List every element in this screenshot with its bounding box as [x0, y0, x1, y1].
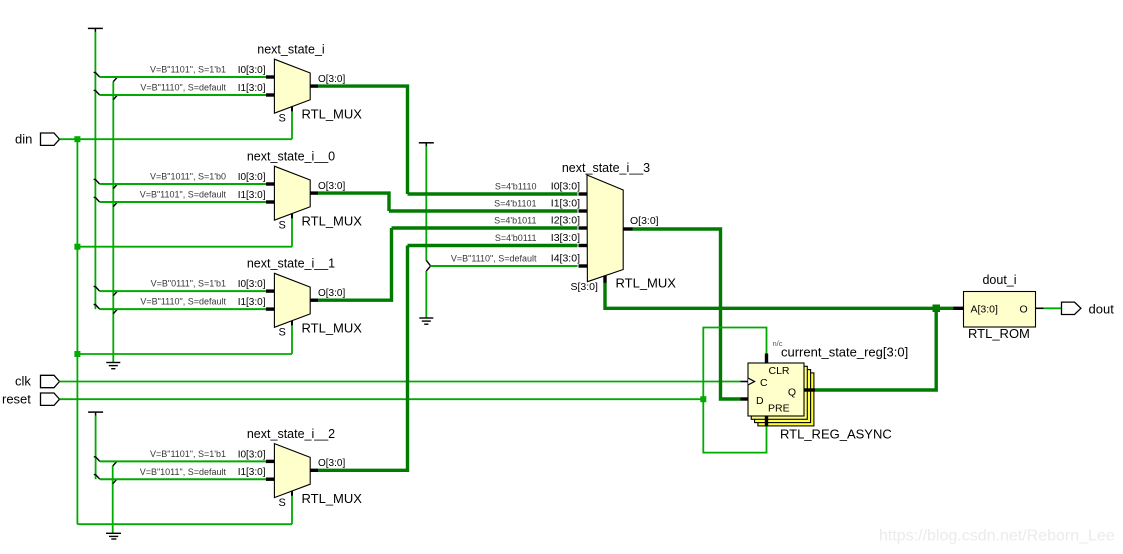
bus big mux input I2: [392, 226, 578, 229]
wire din port to mux S column: [60, 138, 293, 140]
wire reset loop to PRE (lower): [703, 399, 766, 452]
jog trunk1 to I0 of next_state_i__0: [94, 179, 100, 184]
svg-text:next_state_i__0: next_state_i__0: [247, 150, 335, 164]
svg-text:V=B"1101", S=default: V=B"1101", S=default: [140, 190, 227, 200]
power symbol bottom-left constant: [88, 411, 103, 413]
svg-text:S: S: [279, 497, 286, 509]
bus next_state_i__1 O to big mux I2: [318, 228, 392, 300]
wire middle constant trunk upper: [425, 146, 427, 260]
svg-text:O[3:0]: O[3:0]: [318, 74, 345, 85]
junction din / next_state_i__0 S branch: [74, 244, 80, 250]
svg-text:C: C: [760, 377, 768, 389]
svg-text:O[3:0]: O[3:0]: [630, 215, 659, 227]
svg-text:next_state_i__2: next_state_i__2: [247, 427, 335, 441]
jog trunk2 below I1 of next_state_i: [113, 95, 117, 100]
jog trunk1 to I0 of next_state_i: [94, 72, 100, 77]
svg-text:dout: dout: [1089, 302, 1115, 317]
svg-text:next_state_i__3: next_state_i__3: [562, 161, 650, 175]
jog trunk2 below I1 of next_state_i__0: [113, 202, 117, 207]
svg-text:I4[3:0]: I4[3:0]: [551, 253, 580, 265]
svg-text:S=4'b1110: S=4'b1110: [495, 182, 537, 192]
svg-text:RTL_MUX: RTL_MUX: [302, 107, 363, 122]
bus big mux input I0: [408, 192, 578, 195]
rom dout_i RTL_ROM: [953, 273, 1043, 341]
svg-text:Q: Q: [788, 387, 796, 399]
bus state net down to register Q: [815, 308, 936, 390]
wire I1 of next_state_i__0: [100, 201, 266, 203]
wire constant trunk2 bottom: [112, 466, 114, 533]
jog trunk1 to I0 of next_state_i__2: [94, 457, 100, 462]
jog trunk2 below I0 of next_state_i__2: [113, 461, 117, 466]
svg-text:S: S: [279, 327, 286, 339]
svg-text:CLR: CLR: [769, 365, 790, 377]
svg-text:I0[3:0]: I0[3:0]: [238, 65, 266, 76]
wire din branch to next_state_i__0 S: [77, 246, 292, 248]
svg-text:dout_i: dout_i: [982, 273, 1016, 287]
wire constant trunk1 top: [94, 32, 96, 309]
svg-text:I1[3:0]: I1[3:0]: [238, 297, 266, 308]
wire I0 of next_state_i: [100, 76, 266, 78]
svg-text:I1[3:0]: I1[3:0]: [238, 190, 266, 201]
wire reset loop to CLR (upper): [703, 328, 766, 400]
svg-text:S[3:0]: S[3:0]: [571, 281, 599, 293]
svg-text:I0[3:0]: I0[3:0]: [238, 449, 266, 460]
bus big mux input I1: [389, 209, 578, 212]
svg-text:O: O: [1020, 303, 1028, 315]
input port clk: [15, 374, 60, 389]
svg-text:V=B"0111", S=1'b1: V=B"0111", S=1'b1: [151, 279, 226, 289]
wire I0 of next_state_i__2: [100, 460, 266, 462]
bus big mux input I3: [408, 244, 578, 247]
svg-text:V=B"1101", S=1'b1: V=B"1101", S=1'b1: [150, 65, 226, 75]
svg-text:O[3:0]: O[3:0]: [318, 458, 345, 469]
svg-text:RTL_REG_ASYNC: RTL_REG_ASYNC: [780, 427, 892, 442]
jog trunk1 to I1 of next_state_i__2: [94, 475, 100, 480]
jog trunk2 below I0 of next_state_i__1: [113, 291, 117, 296]
svg-text:A[3:0]: A[3:0]: [971, 303, 999, 315]
svg-text:RTL_MUX: RTL_MUX: [616, 276, 677, 291]
wire S of next_state_i down to din net: [291, 111, 293, 139]
bus next_state_i O to big mux I0: [318, 86, 408, 194]
svg-text:RTL_ROM: RTL_ROM: [968, 326, 1030, 341]
ground bottom-left: [106, 533, 121, 539]
svg-text:V=B"1110", S=default: V=B"1110", S=default: [140, 83, 226, 93]
svg-text:V=B"1110", S=default: V=B"1110", S=default: [140, 297, 226, 307]
register current_state_reg[3:0] RTL_REG_ASYNC: [741, 339, 909, 442]
input port din: [15, 132, 60, 147]
svg-text:S: S: [279, 220, 286, 232]
svg-text:din: din: [15, 132, 32, 147]
wire ROM O to dout port: [1044, 307, 1062, 309]
wire constant trunk1 bottom: [95, 416, 97, 480]
wire S of next_state_i__2 down to din net: [291, 496, 293, 525]
svg-text:S=4'b1011: S=4'b1011: [494, 216, 536, 226]
svg-text:V=B"1101", S=1'b1: V=B"1101", S=1'b1: [150, 449, 226, 459]
svg-text:clk: clk: [15, 374, 31, 389]
output port dout: [1062, 302, 1115, 317]
jog trunk2 below I1 of next_state_i__1: [113, 309, 117, 314]
svg-text:PRE: PRE: [768, 403, 790, 415]
junction din / next_state_i S branch: [74, 136, 80, 142]
jog trunk1 to I1 of next_state_i__0: [94, 197, 100, 202]
svg-text:next_state_i: next_state_i: [257, 43, 324, 57]
power symbol top-left constant: [88, 27, 103, 29]
power symbol middle constant: [419, 142, 434, 144]
wire I0 of next_state_i__1: [100, 290, 266, 292]
wire I0 of next_state_i__0: [100, 183, 266, 185]
mux U4 next_state_i__2: [238, 427, 363, 509]
svg-text:I2[3:0]: I2[3:0]: [551, 215, 580, 227]
svg-text:I3[3:0]: I3[3:0]: [551, 232, 580, 244]
svg-text:O[3:0]: O[3:0]: [318, 181, 345, 192]
jog middle trunk to I4 of big mux (lower diagonal): [426, 266, 430, 271]
wire clk to register C pin: [60, 381, 741, 383]
junction reset net: [700, 396, 706, 402]
svg-text:RTL_MUX: RTL_MUX: [302, 214, 363, 229]
svg-text:S=4'b0111: S=4'b0111: [495, 233, 537, 243]
svg-text:S=4'b1101: S=4'b1101: [494, 199, 536, 209]
wire middle constant trunk lower: [425, 271, 427, 318]
wire S of next_state_i__1 down to din net: [291, 325, 293, 354]
jog trunk2 below I1 of next_state_i__2: [113, 479, 117, 484]
wire din branch to next_state_i__2 S: [77, 523, 292, 525]
wire din trunk vertical: [76, 139, 78, 524]
svg-text:V=B"1011", S=1'b0: V=B"1011", S=1'b0: [150, 172, 226, 182]
ground under big mux: [419, 318, 433, 324]
wire big mux input I4 constant: [431, 265, 578, 267]
jog trunk1 to I1 of next_state_i__1: [94, 305, 100, 310]
svg-text:S: S: [279, 113, 286, 125]
wire S of next_state_i__0 down to din net: [291, 218, 293, 247]
svg-text:RTL_MUX: RTL_MUX: [302, 491, 363, 506]
mux U5 next_state_i__3: [551, 161, 676, 293]
svg-text:RTL_MUX: RTL_MUX: [302, 321, 363, 336]
svg-text:I1[3:0]: I1[3:0]: [551, 198, 580, 210]
wire reset to register CLR/PRE loop: [60, 398, 704, 400]
ground middle-left: [106, 363, 120, 369]
wire I1 of next_state_i__2: [100, 478, 266, 480]
mux U2 next_state_i__0: [238, 150, 363, 232]
junction state net at ROM branch: [933, 305, 941, 313]
svg-text:I0[3:0]: I0[3:0]: [238, 172, 266, 183]
wire I1 of next_state_i: [100, 94, 266, 96]
bus big mux S down and right to state net: [605, 283, 953, 309]
svg-text:V=B"1011", S=default: V=B"1011", S=default: [140, 467, 227, 477]
svg-text:I0[3:0]: I0[3:0]: [238, 279, 266, 290]
input port reset: [2, 392, 60, 407]
jog trunk1 to I1 of next_state_i: [94, 90, 100, 95]
wire I1 of next_state_i__1: [100, 308, 266, 310]
svg-text:D: D: [756, 395, 764, 407]
bus next_state_i__2 O to big mux I3: [318, 246, 408, 471]
wire din branch to next_state_i__1 S: [77, 353, 292, 355]
svg-text:I1[3:0]: I1[3:0]: [238, 467, 266, 478]
svg-text:I1[3:0]: I1[3:0]: [238, 83, 266, 94]
svg-text:next_state_i__1: next_state_i__1: [247, 257, 335, 271]
jog trunk1 to I0 of next_state_i__1: [94, 287, 100, 292]
svg-text:https://blog.csdn.net/Reborn_L: https://blog.csdn.net/Reborn_Lee: [879, 528, 1115, 545]
mux U1 next_state_i: [238, 43, 363, 125]
svg-text:O[3:0]: O[3:0]: [318, 288, 345, 299]
jog trunk2 below I0 of next_state_i__0: [113, 184, 117, 189]
svg-text:current_state_reg[3:0]: current_state_reg[3:0]: [781, 345, 908, 360]
junction din / next_state_i__1 S branch: [74, 351, 80, 357]
svg-text:I0[3:0]: I0[3:0]: [551, 181, 580, 193]
svg-text:reset: reset: [2, 392, 31, 407]
jog middle trunk to I4 of big mux (upper diagonal): [426, 260, 430, 266]
mux U3 next_state_i__1: [238, 257, 363, 339]
bus big mux O to register D: [633, 229, 741, 399]
svg-text:V=B"1110", S=default: V=B"1110", S=default: [451, 254, 537, 264]
wire constant trunk2 top: [112, 82, 114, 363]
bus next_state_i__0 O to big mux I1: [318, 193, 389, 211]
jog trunk2 below I0 of next_state_i: [113, 77, 117, 82]
